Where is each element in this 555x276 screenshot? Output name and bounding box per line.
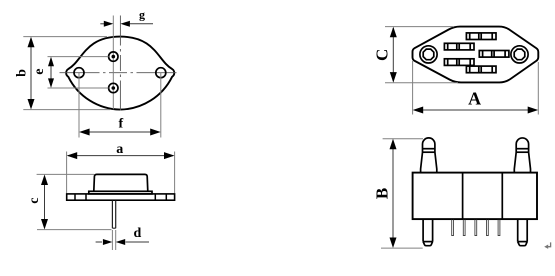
dimension c — [37, 173, 94, 175]
small pin 1 — [452, 220, 454, 236]
horizontal centerline — [60, 72, 181, 74]
vertical centerline — [119, 16, 121, 113]
pin axis extension line — [112, 16, 114, 110]
dimension C — [385, 26, 454, 28]
paragraph return mark — [546, 242, 550, 246]
lead pad bar 3 — [479, 51, 509, 58]
small pin 2 — [463, 220, 465, 236]
bottom post right — [518, 219, 528, 242]
mounting hole right — [156, 68, 166, 78]
lead pad bar 5 — [466, 66, 496, 73]
lead pad bar 2 — [444, 43, 474, 50]
top view package outline — [66, 37, 174, 110]
lead pad bar 1 — [466, 33, 496, 40]
side view cap body — [94, 174, 148, 191]
top post right — [514, 138, 530, 173]
side view cap rim — [89, 191, 152, 194]
dimension b — [23, 36, 107, 38]
body divider right — [501, 173, 503, 220]
dimension f — [78, 73, 80, 138]
svg-text:C: C — [373, 49, 392, 61]
bottom view hole left — [420, 46, 437, 63]
small pin 3 — [475, 220, 477, 236]
svg-text:g: g — [139, 7, 145, 21]
dimension e — [48, 56, 109, 58]
small pin 5 — [498, 220, 500, 236]
lead pad bar 4 — [444, 59, 474, 66]
connector body — [413, 173, 537, 220]
dimension g — [100, 23, 106, 25]
pin bottom — [109, 83, 118, 92]
top post left — [421, 138, 437, 173]
svg-text:B: B — [373, 188, 392, 199]
bottom post left — [423, 219, 433, 242]
dimension B — [383, 138, 423, 140]
pin top — [109, 52, 118, 61]
small pin 4 — [487, 220, 489, 236]
mounting hole left — [74, 68, 84, 78]
body divider left — [462, 173, 464, 220]
flange hole hatch ticks — [75, 194, 166, 200]
bottom view package outline — [413, 27, 539, 83]
svg-text:a: a — [116, 142, 123, 157]
svg-text:d: d — [134, 226, 142, 241]
dimension a — [66, 152, 68, 194]
dimension A — [412, 61, 414, 115]
dimension d — [111, 230, 113, 250]
svg-text:e: e — [32, 68, 47, 74]
side view flange — [67, 194, 175, 200]
bottom view hole right — [511, 46, 528, 63]
svg-text:A: A — [468, 89, 481, 109]
svg-text:b: b — [14, 69, 29, 77]
side view pin — [112, 201, 115, 229]
svg-text:c: c — [27, 197, 42, 203]
svg-text:f: f — [118, 117, 123, 132]
